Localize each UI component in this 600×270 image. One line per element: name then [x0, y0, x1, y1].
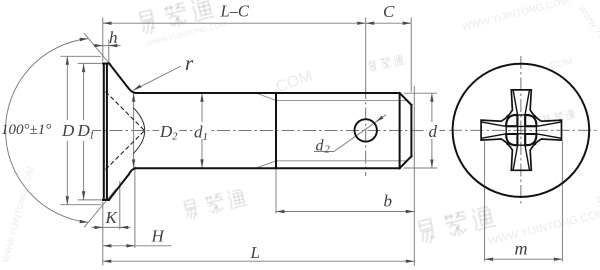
svg-text:WWW.YIJINTONG.COM: WWW.YIJINTONG.COM — [461, 0, 570, 33]
svg-text:b: b — [384, 192, 393, 211]
svg-text:1: 1 — [89, 130, 95, 142]
svg-text:100°±1°: 100°±1° — [1, 122, 51, 138]
svg-text:WWW.YIJINTONG.COM: WWW.YIJINTONG.COM — [0, 165, 35, 263]
svg-text:d: d — [316, 138, 325, 155]
svg-text:1: 1 — [203, 131, 209, 143]
svg-text:L–C: L–C — [220, 2, 250, 21]
svg-text:WWW.YIJINTONG.COM: WWW.YIJINTONG.COM — [594, 194, 600, 270]
svg-text:WWW.YIJINTONG.COM: WWW.YIJINTONG.COM — [576, 3, 600, 90]
svg-text:D: D — [61, 121, 75, 140]
svg-text:2: 2 — [172, 131, 178, 143]
svg-text:2: 2 — [325, 145, 331, 156]
svg-text:m: m — [515, 239, 528, 259]
svg-text:d: d — [429, 122, 438, 141]
svg-text:C: C — [383, 2, 395, 21]
svg-text:r: r — [185, 51, 194, 75]
svg-text:H: H — [151, 227, 166, 246]
svg-text:L: L — [250, 243, 260, 262]
svg-text:h: h — [109, 28, 118, 47]
svg-text:D: D — [159, 122, 173, 141]
svg-text:K: K — [105, 208, 119, 227]
svg-text:WWW.YIJINTONG.COM: WWW.YIJINTONG.COM — [487, 207, 600, 248]
